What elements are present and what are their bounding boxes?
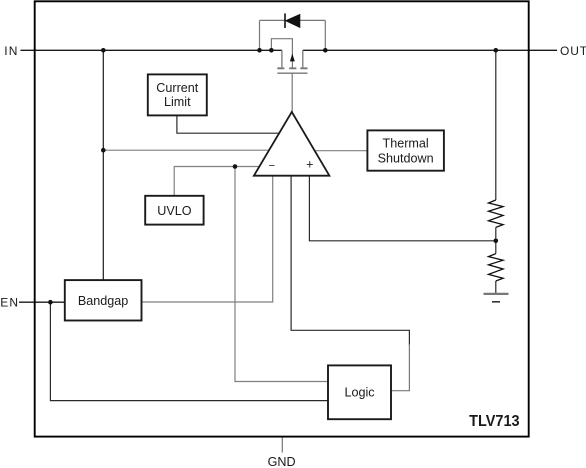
wire Logic output riser [391, 344, 409, 391]
node divider tap on rail [494, 48, 499, 53]
node diode right junction [323, 48, 328, 53]
node UVLO line junction [233, 164, 238, 169]
wire IN riser down to Bandgap [102, 50, 104, 280]
node diode left junction [257, 48, 262, 53]
diode D1 body diode [285, 13, 300, 28]
node EN branch junction [48, 300, 53, 305]
block UVLO [145, 196, 203, 225]
svg-text:Logic: Logic [344, 386, 374, 400]
wire between R1 and R2 [495, 227, 497, 253]
wire Bandgap output to inverting input [142, 176, 273, 302]
node bulk loop junction [269, 48, 274, 53]
wire op-amp middle terminal to Logic [291, 176, 409, 345]
wire OUT to feedback divider [495, 50, 497, 200]
svg-text:EN: EN [0, 296, 19, 310]
svg-text:TLV713: TLV713 [469, 413, 520, 430]
wire OUT rail right segment [303, 49, 557, 51]
svg-text:−: − [269, 160, 276, 172]
block Bandgap [65, 280, 142, 320]
wire Current Limit to op-amp [177, 115, 281, 133]
wire EN branch to Logic lower input [50, 302, 328, 400]
wire EN input line [19, 301, 65, 303]
wire diode cathode-side horizontal [300, 19, 325, 21]
node feedback divider midpoint [494, 239, 499, 244]
wire IN branch to op-amp at y=150 [103, 149, 272, 151]
wire IN rail left segment [21, 49, 282, 51]
resistor R1 feedback top [489, 200, 504, 227]
node IN branch junction [101, 148, 106, 153]
svg-text:IN: IN [4, 44, 18, 58]
svg-text:Shutdown: Shutdown [378, 151, 434, 165]
svg-text:Current: Current [156, 81, 198, 95]
wire diode loop left vertical [259, 20, 261, 50]
block Current Limit [148, 74, 207, 115]
svg-text:+: + [306, 157, 313, 171]
wire gate lead to op-amp output [291, 73, 293, 112]
wire MOSFET bulk loop [271, 39, 292, 68]
wire diode loop right vertical [324, 20, 326, 50]
op-amp U1 error amplifier [254, 112, 330, 176]
svg-text:Limit: Limit [164, 95, 191, 109]
wire GND pin stub [281, 437, 283, 453]
wire R2 to ground [495, 281, 497, 294]
resistor R2 feedback bottom [489, 254, 504, 281]
block Logic [328, 365, 391, 419]
wire UVLO to inverting input [174, 167, 263, 196]
svg-text:OUT: OUT [560, 44, 586, 58]
svg-text:Thermal: Thermal [383, 137, 429, 151]
svg-text:Bandgap: Bandgap [78, 294, 128, 308]
transistor Q1 PMOS pass element [277, 50, 307, 73]
node IN riser junction on rail [101, 48, 106, 53]
wire non-inverting input to feedback node [309, 176, 495, 241]
block Thermal Shutdown [367, 130, 444, 170]
border device outline [35, 1, 529, 436]
wire diode anode-side horizontal [260, 19, 286, 21]
svg-text:UVLO: UVLO [157, 204, 191, 218]
svg-text:GND: GND [268, 455, 296, 468]
wire op-amp to Thermal Shutdown [313, 150, 367, 152]
wire node branch to Logic upper input [235, 167, 328, 382]
ground [484, 294, 509, 302]
